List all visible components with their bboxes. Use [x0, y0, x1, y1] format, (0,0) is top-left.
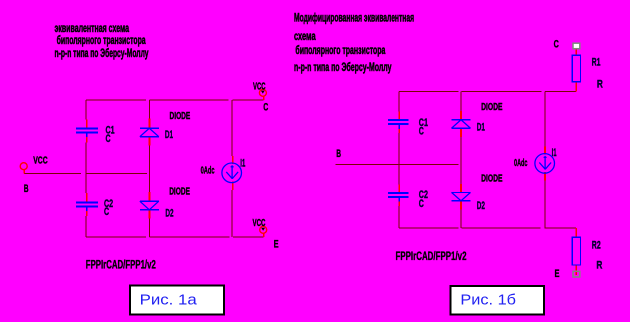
current source I1 [222, 163, 242, 183]
svg-text:C: C [554, 38, 559, 50]
resistor R2 [572, 237, 580, 265]
svg-text:B: B [336, 148, 341, 160]
wire diode branch vertical [460, 92, 462, 229]
node E connector [260, 226, 267, 237]
svg-text:C: C [419, 198, 424, 210]
terminal box E [573, 271, 580, 277]
svg-text:VCC: VCC [253, 218, 266, 229]
svg-text:C: C [104, 206, 109, 218]
svg-text:R: R [597, 78, 603, 90]
diode D1 [452, 120, 471, 128]
node C connector [259, 89, 266, 100]
pin C1 [86, 120, 88, 143]
svg-text:VCC: VCC [33, 156, 48, 167]
svg-text:0Adc: 0Adc [201, 165, 215, 176]
svg-text:0Adc: 0Adc [514, 158, 528, 169]
svg-text:n-p-n типа по Эберсу-Моллу: n-p-n типа по Эберсу-Моллу [55, 46, 149, 60]
wire left vertical [85, 100, 87, 237]
svg-text:схема: схема [294, 29, 316, 43]
wire mid rail (base) [336, 164, 459, 166]
svg-text:VCC: VCC [253, 82, 266, 93]
pin R1 stubs [575, 49, 577, 92]
pin C2 [86, 193, 88, 216]
svg-text:C: C [263, 101, 268, 113]
svg-text:R: R [596, 259, 602, 271]
svg-text:n-p-n типа по Эберсу-Моллу: n-p-n типа по Эберсу-Моллу [294, 60, 392, 74]
wire left vertical [398, 92, 400, 229]
pin D2 [460, 184, 462, 210]
current source I1 [535, 154, 555, 174]
svg-text:биполярного транзистора: биполярного транзистора [295, 43, 385, 57]
svg-text:биполярного транзистора: биполярного транзистора [57, 33, 146, 47]
svg-text:DIODE: DIODE [481, 102, 503, 113]
svg-text:Рис. 1б: Рис. 1б [460, 293, 516, 309]
svg-text:DIODE: DIODE [481, 173, 503, 184]
diode D2 [452, 192, 471, 200]
pin C1 [398, 111, 400, 133]
svg-text:E: E [555, 268, 560, 280]
pin I1 [544, 146, 546, 180]
svg-text:B: B [24, 183, 29, 195]
wire mid rail (base) [24, 173, 147, 175]
svg-text:Модифицированная эквивалентная: Модифицированная эквивалентная [294, 11, 414, 25]
svg-text:C: C [419, 125, 424, 137]
svg-text:D1: D1 [477, 121, 485, 133]
wire current-source branch vertical [544, 92, 546, 229]
svg-text:C: C [106, 133, 111, 145]
svg-text:D2: D2 [477, 200, 485, 212]
svg-text:R2: R2 [592, 240, 601, 252]
wire bottom rail [86, 236, 264, 238]
svg-text:I1: I1 [552, 147, 557, 159]
svg-text:I1: I1 [240, 157, 245, 169]
svg-text:FPPIrCAD/FPP1/v2: FPPIrCAD/FPP1/v2 [86, 258, 156, 272]
wire current-source branch vertical [231, 100, 233, 237]
pin D2 [149, 192, 151, 219]
pin D1 [460, 111, 462, 137]
capacitor C1 [76, 129, 98, 138]
caption box Рис. 1а [130, 286, 224, 315]
wire top rail [86, 99, 264, 101]
capacitor C1 [388, 120, 408, 129]
wire top rail [399, 91, 576, 93]
terminal box C [573, 43, 580, 49]
svg-text:Рис. 1а: Рис. 1а [140, 293, 198, 309]
resistor R1 [572, 55, 580, 81]
capacitor C2 [388, 193, 408, 201]
pin R2 stubs [575, 228, 577, 275]
wire bottom rail [399, 227, 576, 229]
svg-text:FPPIrCAD/FPP1/v2: FPPIrCAD/FPP1/v2 [396, 249, 467, 263]
svg-text:D2: D2 [165, 208, 173, 220]
diode D2 [140, 201, 159, 210]
pin C2 [398, 184, 400, 206]
svg-text:E: E [274, 238, 279, 250]
capacitor C2 [76, 202, 98, 211]
node B connector [20, 163, 27, 174]
diode D1 [140, 128, 159, 136]
svg-text:D1: D1 [165, 129, 173, 141]
wire diode branch vertical [149, 100, 151, 237]
pin D1 [149, 119, 151, 146]
svg-text:R1: R1 [592, 57, 601, 69]
caption box Рис. 1б [451, 286, 545, 315]
svg-text:DIODE: DIODE [170, 111, 191, 122]
svg-text:DIODE: DIODE [169, 186, 190, 197]
pin I1 [232, 156, 234, 190]
